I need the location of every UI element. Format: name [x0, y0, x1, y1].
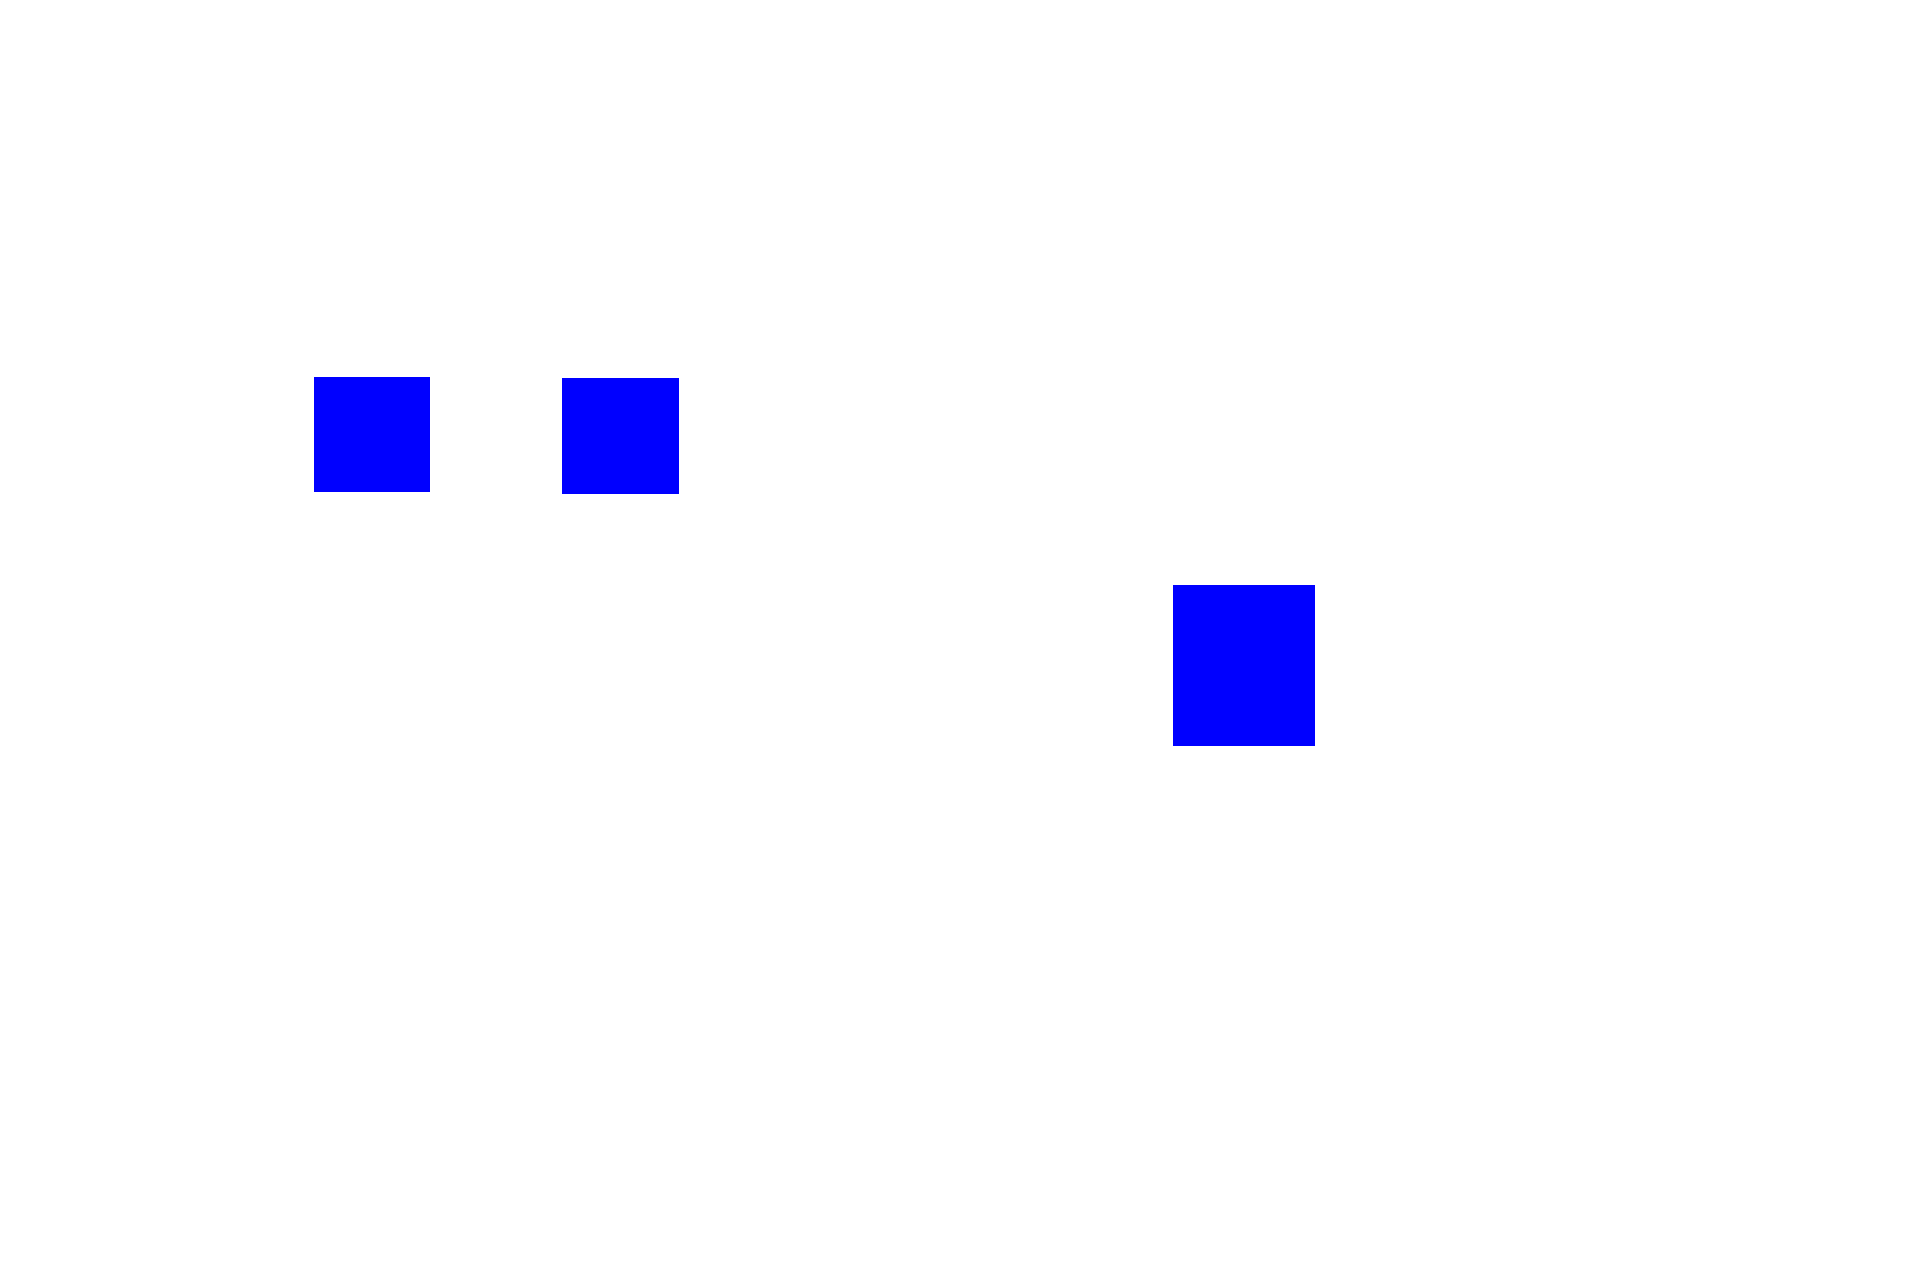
blue rectangle 1 (left) [314, 377, 430, 492]
blue rectangle 3 (right, larger) [1173, 585, 1315, 746]
blue rectangle 2 (middle) [562, 378, 679, 494]
